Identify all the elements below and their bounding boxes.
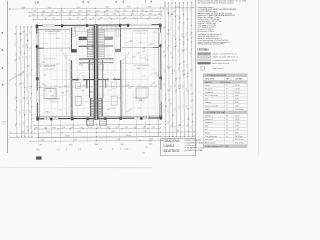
- svg-text:2,41: 2,41: [53, 127, 57, 129]
- panel right border: [258, 0, 260, 156]
- legend item 1: [198, 53, 211, 55]
- svg-text:1,45: 1,45: [141, 10, 145, 12]
- bath stub wall left: [86, 80, 88, 89]
- entry porch steps: [92, 98, 102, 100]
- svg-text:3,83: 3,83: [14, 32, 16, 35]
- table row Dormitor 3: [203, 120, 247, 122]
- svg-text:6: 6: [88, 0, 90, 4]
- svg-text:2,95: 2,95: [33, 11, 37, 13]
- table side borders: [202, 73, 204, 147]
- left dimension ticks: [15, 26, 16, 27]
- svg-text:2,42: 2,42: [178, 14, 180, 17]
- svg-text:4,51: 4,51: [178, 106, 180, 109]
- svg-text:1,80: 1,80: [149, 144, 153, 146]
- door jamb nubs: [76, 79, 77, 81]
- svg-text:2,94: 2,94: [30, 86, 32, 89]
- svg-text:7: 7: [145, 0, 147, 4]
- svg-text:2,69: 2,69: [111, 108, 114, 110]
- table footer band: [203, 144, 247, 147]
- svg-text:2,82: 2,82: [19, 83, 21, 86]
- bath fixtures left: [75, 96, 81, 105]
- interior wall left unit horizontal (hall): [72, 79, 79, 81]
- svg-text:1,80: 1,80: [39, 144, 43, 146]
- svg-text:1,13: 1,13: [47, 112, 50, 114]
- table row Living: [203, 82, 247, 84]
- svg-text:2,75: 2,75: [22, 56, 24, 59]
- interior faint extension lines: [43, 27, 46, 118]
- svg-text:beton armat monolit: beton armat monolit: [213, 62, 230, 65]
- svg-text:4,40: 4,40: [77, 7, 81, 9]
- stairs right unit: [97, 45, 114, 47]
- svg-text:din 21.08.2019 emis de Primari: din 21.08.2019 emis de Primaria Craiova: [198, 3, 235, 5]
- svg-text:176,44 mp: 176,44 mp: [235, 143, 244, 145]
- svg-text:92: 92: [117, 17, 119, 19]
- svg-text:1,45: 1,45: [80, 127, 84, 129]
- svg-text:4,38: 4,38: [171, 52, 173, 55]
- svg-text:2,43: 2,43: [30, 97, 32, 100]
- svg-text:2,30: 2,30: [15, 124, 17, 127]
- svg-text:5: 5: [83, 0, 85, 4]
- wc fixtures near spine right: [99, 64, 104, 70]
- svg-text:2,32: 2,32: [190, 32, 192, 35]
- legend item 4: [198, 62, 211, 64]
- svg-text:2,81: 2,81: [48, 91, 51, 93]
- top extension lines: [36, 7, 38, 25]
- interior dimension line across rooms left: [40, 86, 92, 88]
- table row Total mansarda: [203, 133, 247, 135]
- svg-text:3,10: 3,10: [48, 7, 52, 9]
- svg-text:93: 93: [149, 17, 151, 19]
- svg-text:1,97: 1,97: [23, 122, 25, 125]
- svg-text:3,84: 3,84: [86, 48, 89, 50]
- svg-text:2,16: 2,16: [95, 14, 99, 16]
- svg-text:1,39: 1,39: [134, 127, 138, 129]
- table row Dormitor 1: [203, 113, 247, 115]
- svg-text:2,18: 2,18: [79, 64, 82, 66]
- interior wall left unit vertical: [70, 28, 72, 53]
- legend item 2: [198, 56, 211, 58]
- bottom dimension line 5: [30, 139, 162, 142]
- svg-text:2,56: 2,56: [178, 49, 180, 52]
- legend item 3: [198, 59, 211, 61]
- svg-text:4,81: 4,81: [164, 70, 166, 73]
- svg-text:OBADOVA: OBADOVA: [164, 139, 181, 143]
- svg-text:91: 91: [101, 17, 103, 19]
- svg-text:2,99: 2,99: [156, 75, 159, 77]
- svg-text:3,00: 3,00: [121, 144, 125, 146]
- table row Dormitor 2: [203, 116, 247, 118]
- svg-text:2,53: 2,53: [113, 14, 117, 16]
- bottom wall columns: [36, 118, 38, 121]
- svg-text:H cornisa = 3,20 m: H cornisa = 3,20 m: [198, 31, 215, 33]
- svg-text:1,14: 1,14: [123, 10, 127, 12]
- svg-text:1,55: 1,55: [167, 33, 169, 36]
- svg-text:2,19: 2,19: [89, 127, 93, 129]
- svg-text:2,69: 2,69: [158, 13, 162, 15]
- svg-text:-0,45: -0,45: [1, 124, 5, 126]
- svg-text:4,92: 4,92: [19, 111, 21, 114]
- left dimension chains: [15, 27, 18, 137]
- kitchen dark bar 1 right: [105, 37, 113, 40]
- svg-text:A. SUFRAGERIE: A. SUFRAGERIE: [40, 65, 56, 68]
- svg-text:Bucatarie: Bucatarie: [205, 87, 213, 90]
- svg-text:2,66: 2,66: [42, 11, 46, 13]
- bottom dimension line 2: [34, 127, 160, 130]
- svg-text:6,40: 6,40: [77, 131, 81, 133]
- svg-text:1,41: 1,41: [122, 13, 126, 15]
- kitchen dark bar 1 left: [79, 37, 87, 40]
- svg-text:2.01 2.02 2.03: 2.01 2.02 2.03: [44, 58, 56, 60]
- svg-text:2,20: 2,20: [137, 85, 140, 87]
- svg-text:2,42: 2,42: [142, 51, 145, 53]
- svg-text:4,25: 4,25: [175, 130, 179, 132]
- svg-text:2,40: 2,40: [98, 127, 102, 129]
- left wall hatch: [36, 28, 38, 30]
- right wall hatch: [159, 27, 161, 29]
- svg-text:2,79: 2,79: [116, 127, 120, 129]
- svg-text:3,69: 3,69: [182, 85, 184, 88]
- svg-text:3,91: 3,91: [19, 32, 21, 35]
- svg-text:3,32: 3,32: [174, 46, 176, 49]
- svg-text:2,62: 2,62: [50, 14, 54, 16]
- svg-text:3,40: 3,40: [29, 48, 31, 51]
- kitchen duct left: [73, 27, 76, 37]
- svg-text:2,49: 2,49: [30, 126, 32, 129]
- svg-text:1,68: 1,68: [190, 68, 192, 71]
- svg-text:4,25: 4,25: [22, 7, 26, 9]
- svg-text:3,65: 3,65: [174, 108, 176, 111]
- svg-text:3,30: 3,30: [163, 50, 165, 53]
- svg-text:3,30: 3,30: [106, 7, 110, 9]
- kitchen counter strip right: [102, 27, 117, 32]
- svg-text:97: 97: [141, 17, 143, 19]
- svg-text:1,39: 1,39: [114, 10, 118, 12]
- svg-text:2,95: 2,95: [167, 47, 169, 50]
- svg-text:2,64: 2,64: [82, 76, 85, 78]
- svg-text:118,66 mp: 118,66 mp: [235, 109, 243, 111]
- svg-text:3,72: 3,72: [128, 87, 131, 89]
- terrace outline below building: [37, 120, 39, 137]
- svg-text:3,20: 3,20: [15, 59, 17, 62]
- svg-text:SUPRAF.: SUPRAF.: [235, 77, 243, 80]
- svg-text:Dormitor 2: Dormitor 2: [205, 118, 213, 121]
- svg-text:LOCUINTA CUPLATA P+M: LOCUINTA CUPLATA P+M: [185, 141, 208, 144]
- left wall window 2: [36, 91, 38, 103]
- svg-text:1,43: 1,43: [26, 56, 28, 59]
- svg-text:Terasa acoperita: Terasa acoperita: [205, 104, 218, 107]
- svg-text:1,17: 1,17: [104, 14, 108, 16]
- svg-text:Dormitor 3: Dormitor 3: [205, 121, 213, 124]
- wall parallel liner right: [121, 60, 123, 120]
- title block bottom line: [161, 155, 196, 157]
- svg-text:1,87: 1,87: [15, 109, 17, 112]
- svg-text:2,55: 2,55: [77, 14, 81, 16]
- svg-text:3,99: 3,99: [132, 56, 135, 58]
- svg-text:zidarie caramida GVP 12,5 cm: zidarie caramida GVP 12,5 cm: [213, 56, 239, 59]
- svg-text:2,99: 2,99: [186, 105, 188, 108]
- svg-text:3,14: 3,14: [174, 69, 176, 72]
- kitchen counter strip left: [75, 27, 90, 32]
- stair landing line right: [97, 62, 114, 64]
- svg-text:2,28: 2,28: [186, 47, 188, 50]
- svg-text:2,98: 2,98: [143, 126, 147, 128]
- svg-text:2,20: 2,20: [54, 85, 57, 87]
- svg-text:1,59: 1,59: [174, 126, 176, 129]
- building bottom exterior wall: [36, 117, 162, 120]
- building left exterior wall: [36, 25, 39, 120]
- right wall window 2: [160, 90, 162, 102]
- svg-text:termoizolatie polistiren 10 cm: termoizolatie polistiren 10 cm: [213, 59, 238, 62]
- svg-text:2,23: 2,23: [130, 41, 133, 43]
- table header band 1: [203, 73, 247, 76]
- svg-text:2,37: 2,37: [150, 10, 154, 12]
- svg-text:96: 96: [157, 17, 159, 19]
- svg-text:90: 90: [77, 17, 79, 19]
- svg-text:3,80: 3,80: [178, 124, 180, 127]
- wc wall right unit: [102, 60, 104, 98]
- svg-text:0,90: 0,90: [145, 147, 148, 149]
- top dimension line 2: [29, 11, 161, 14]
- svg-text:3,62: 3,62: [167, 121, 169, 124]
- left wall columns: [36, 26, 39, 29]
- bath fixtures right: [111, 96, 117, 105]
- svg-text:2,45: 2,45: [142, 153, 145, 155]
- svg-text:7,25: 7,25: [74, 139, 78, 141]
- stairs left unit: [79, 45, 95, 47]
- bottom dimension line 1: [34, 123, 160, 126]
- svg-text:1,53: 1,53: [69, 10, 73, 12]
- svg-text:S=19,80 mp: S=19,80 mp: [50, 101, 59, 103]
- door arc left hall: [77, 73, 84, 80]
- table row Hol + casa scarii: [203, 93, 247, 95]
- svg-text:91: 91: [69, 17, 71, 19]
- panel separator line: [195, 0, 197, 156]
- svg-text:1,23: 1,23: [190, 8, 192, 11]
- svg-text:3,26: 3,26: [163, 26, 165, 29]
- svg-text:1,98: 1,98: [164, 83, 166, 86]
- svg-text:PLAN PARTER sc 1:50: PLAN PARTER sc 1:50: [185, 147, 204, 150]
- svg-text:4,16: 4,16: [190, 51, 192, 54]
- svg-text:1,68: 1,68: [186, 88, 188, 91]
- svg-text:2,97: 2,97: [23, 82, 25, 85]
- interior wall right unit vertical: [119, 27, 121, 52]
- svg-text:93: 93: [109, 17, 111, 19]
- svg-text:2,62: 2,62: [86, 14, 90, 16]
- svg-text:1,45: 1,45: [139, 100, 142, 102]
- svg-text:3,35: 3,35: [145, 59, 148, 61]
- svg-text:1,37: 1,37: [152, 126, 156, 128]
- interior vertical dim line right room: [124, 52, 126, 115]
- svg-text:2,29: 2,29: [26, 97, 28, 100]
- svg-text:2,94: 2,94: [183, 125, 185, 128]
- table row Bucatarie: [203, 86, 247, 88]
- svg-text:str. Viilor nr. 28: str. Viilor nr. 28: [185, 144, 197, 147]
- svg-text:1,90: 1,90: [105, 10, 109, 12]
- svg-text:3,13: 3,13: [174, 34, 176, 37]
- svg-text:2,88: 2,88: [182, 33, 184, 36]
- table row Total casa: [203, 137, 247, 139]
- svg-text:3,30: 3,30: [15, 83, 17, 86]
- door arc entry right: [100, 113, 107, 120]
- svg-text:2,35: 2,35: [127, 6, 131, 8]
- bath stub wall right: [105, 79, 107, 88]
- sheet background: [0, 0, 262, 169]
- svg-text:plansa A02 faza DTAC: plansa A02 faza DTAC: [185, 149, 204, 152]
- svg-text:1,57: 1,57: [164, 109, 166, 112]
- svg-text:1,59: 1,59: [23, 97, 25, 100]
- bottom dimension line 4: [10, 136, 194, 137]
- svg-text:4,45: 4,45: [163, 8, 165, 11]
- svg-text:97: 97: [133, 17, 135, 19]
- table row S utila totala: [203, 140, 247, 142]
- svg-text:3,86: 3,86: [50, 95, 53, 97]
- sheet left border line: [6, 1, 8, 153]
- kitchen dark bar 2 left: [71, 49, 77, 52]
- svg-text:3,24: 3,24: [56, 38, 59, 40]
- svg-text:3,00: 3,00: [69, 144, 73, 146]
- svg-text:2,52: 2,52: [107, 127, 111, 129]
- table band subsol: [203, 80, 247, 83]
- svg-text:2,79: 2,79: [26, 109, 28, 112]
- svg-text:2,38: 2,38: [91, 28, 94, 30]
- svg-text:3,38: 3,38: [110, 63, 113, 65]
- scale blob: [36, 156, 42, 159]
- svg-text:2,96: 2,96: [186, 32, 188, 35]
- right wall window: [159, 33, 161, 44]
- svg-text:98: 98: [85, 17, 87, 19]
- door arc right kitchen: [121, 52, 129, 60]
- svg-text:1,63: 1,63: [101, 30, 104, 32]
- title block top line: [161, 138, 196, 140]
- table row Camara: [203, 99, 247, 101]
- svg-text:3,50: 3,50: [41, 139, 45, 141]
- svg-text:3,34: 3,34: [142, 75, 145, 77]
- svg-text:3,56: 3,56: [167, 8, 169, 11]
- svg-text:1,34: 1,34: [131, 13, 135, 15]
- svg-text:3,91: 3,91: [26, 87, 28, 90]
- svg-text:Dormitor 1: Dormitor 1: [205, 114, 213, 117]
- svg-text:2,65: 2,65: [164, 126, 166, 129]
- kitchen dark bar 2 right: [115, 49, 121, 52]
- svg-text:96: 96: [125, 17, 127, 19]
- svg-text:4,56: 4,56: [22, 45, 24, 48]
- svg-text:2,67: 2,67: [44, 127, 48, 129]
- svg-text:BEATRICE: BEATRICE: [164, 149, 181, 153]
- radiator dashes bottom right unit: [136, 116, 138, 118]
- table row Terasa acoperita: [203, 103, 247, 105]
- bottom extension lines: [37, 121, 39, 143]
- top wall windows: [43, 24, 55, 26]
- svg-text:3,33: 3,33: [126, 111, 129, 113]
- svg-text:3,37: 3,37: [19, 99, 21, 102]
- svg-text:2,44: 2,44: [170, 13, 172, 16]
- svg-text:LANKA: LANKA: [164, 144, 176, 148]
- table band 2 situatia propusa: [203, 111, 247, 114]
- svg-text:3,31: 3,31: [117, 97, 120, 99]
- svg-text:90: 90: [93, 17, 95, 19]
- wc fixtures near spine left: [88, 64, 93, 70]
- top dimension line 4: [34, 18, 161, 21]
- svg-text:3,89: 3,89: [178, 67, 180, 70]
- svg-text:2,90: 2,90: [148, 6, 152, 8]
- svg-text:1,86: 1,86: [26, 126, 28, 129]
- svg-text:1,89: 1,89: [150, 44, 153, 46]
- svg-text:4,05: 4,05: [175, 6, 179, 8]
- svg-text:2,38: 2,38: [171, 85, 173, 88]
- svg-text:3,27: 3,27: [20, 123, 22, 126]
- interior wall right unit horizontal (hall): [98, 78, 108, 80]
- svg-text:1,24: 1,24: [29, 31, 31, 34]
- top dimension line 1: [9, 8, 193, 9]
- door arc left kitchen: [64, 52, 72, 60]
- interior vertical dim line left room: [65, 52, 67, 115]
- svg-text:91: 91: [45, 18, 47, 20]
- dining table left room: [44, 89, 56, 99]
- svg-text:Total casa: Total casa: [205, 138, 213, 141]
- svg-text:5: 5: [123, 0, 125, 4]
- svg-text:2,27: 2,27: [140, 13, 144, 15]
- svg-text:DENUMIRE: DENUMIRE: [205, 78, 215, 80]
- top dimension line 3: [30, 14, 162, 17]
- bottom wall windows: [44, 118, 58, 120]
- door arc right hall: [108, 72, 115, 79]
- svg-text:3,15: 3,15: [134, 97, 137, 99]
- table row Baie: [203, 123, 247, 125]
- svg-text:2,82: 2,82: [142, 48, 145, 50]
- top wall columns: [36, 24, 38, 27]
- legend item beton square: [201, 67, 204, 70]
- svg-text:7,25: 7,25: [117, 139, 121, 141]
- svg-text:2,29: 2,29: [152, 82, 155, 84]
- svg-text:2,30: 2,30: [35, 127, 39, 129]
- svg-text:4,54: 4,54: [174, 84, 176, 87]
- bottom dimension line 3: [10, 132, 194, 133]
- svg-text:2,62: 2,62: [167, 110, 169, 113]
- svg-text:2,45: 2,45: [95, 144, 99, 146]
- svg-text:2,33: 2,33: [149, 13, 153, 15]
- svg-text:2,90: 2,90: [71, 127, 75, 129]
- bottom sheet shadow: [0, 166, 152, 169]
- right wall columns: [159, 25, 162, 28]
- svg-text:1,83: 1,83: [32, 14, 36, 16]
- svg-text:3,84: 3,84: [22, 31, 24, 34]
- svg-text:1,85: 1,85: [78, 10, 82, 12]
- svg-text:1,8: 1,8: [34, 0, 39, 4]
- svg-text:2,30: 2,30: [167, 89, 169, 92]
- building top exterior wall: [36, 24, 162, 27]
- interior light partitions right: [122, 46, 159, 48]
- svg-text:beton simplu: beton simplu: [213, 67, 224, 70]
- svg-text:1,20: 1,20: [29, 55, 31, 58]
- svg-text:2,32: 2,32: [136, 52, 139, 54]
- svg-text:2,70: 2,70: [186, 64, 188, 67]
- svg-text:10,90: 10,90: [65, 135, 70, 137]
- svg-text:kN/mp, presiune vant 0,4 kPa: kN/mp, presiune vant 0,4 kPa: [198, 43, 225, 46]
- svg-text:3,79: 3,79: [137, 68, 140, 70]
- interior light partitions left: [38, 47, 71, 49]
- svg-text:4,80: 4,80: [182, 50, 184, 53]
- svg-text:10,90: 10,90: [126, 135, 131, 137]
- entry porch side wall left: [90, 98, 92, 116]
- left margin dots: [1, 32, 3, 34]
- party wall cavity fill: [94, 24, 98, 119]
- svg-text:3,65: 3,65: [26, 44, 28, 47]
- svg-text:1,73: 1,73: [110, 60, 113, 62]
- svg-text:2,25: 2,25: [66, 91, 69, 93]
- stair landing line left: [79, 62, 95, 64]
- svg-text:3,94: 3,94: [41, 62, 44, 64]
- left leader arrow: [9, 72, 24, 81]
